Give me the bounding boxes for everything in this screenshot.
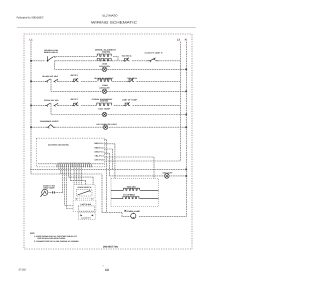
wire lamp1 branch [55, 61, 187, 70]
switch door contacts [77, 190, 93, 197]
wire N rail [139, 42, 186, 217]
svg-text:THERMO DISC: THERMO DISC [40, 120, 60, 123]
wire comb route right b [70, 168, 85, 185]
svg-text:2W4557700: 2W4557700 [103, 246, 119, 249]
svg-text:ORG P1-3: ORG P1-3 [95, 150, 104, 153]
node junction rung2-L1 [30, 81, 32, 83]
header rule [17, 26, 196, 28]
wire lamp2 branch [51, 79, 186, 91]
diagram border frame [24, 34, 192, 249]
svg-text:SPST: SPST [71, 74, 80, 77]
wire comb drop box1 c [78, 168, 80, 185]
contact rung3 limit [124, 102, 131, 106]
node junction rung4-L1 [30, 126, 32, 128]
svg-text:CONV NO 16A: CONV NO 16A [44, 99, 59, 102]
lamp conv indicator [102, 112, 106, 116]
svg-text:N: N [185, 38, 187, 41]
wire rung4 main [31, 126, 186, 128]
wire pin line 4 [104, 157, 154, 179]
box lock motor unit [73, 200, 96, 211]
contact rung3 dlb [72, 102, 78, 106]
wire rung3 main [31, 104, 180, 106]
lamp bake indicator [102, 89, 106, 93]
node junction rung3-L1 [30, 105, 32, 107]
resistor conv coil [97, 103, 112, 105]
wire pin line 3 [104, 153, 109, 176]
svg-text:BRN P1-1: BRN P1-1 [95, 142, 104, 145]
wire box1 to box2 links [77, 198, 93, 200]
svg-text:2500W: 2500W [100, 100, 108, 103]
connector comb P1 [57, 164, 91, 167]
svg-text:ELECTRONIC OVEN CONTROL: ELECTRONIC OVEN CONTROL [48, 143, 70, 146]
svg-text:BAKE NO 16A: BAKE NO 16A [43, 75, 59, 78]
wire lamp3 branch [51, 103, 186, 114]
svg-text:OVEN: OVEN [102, 62, 108, 65]
box lower connector [78, 212, 95, 219]
connector motor plug [53, 191, 55, 194]
node junction bus-N [185, 169, 187, 171]
resistor bake coil [98, 79, 111, 81]
node junction lamp3-N [185, 114, 187, 116]
svg-text:YEL P1-4: YEL P1-4 [95, 154, 104, 157]
svg-text:3410W: 3410W [102, 51, 110, 54]
wire comb drop 1 [58, 168, 60, 170]
wire rung1 upper branch [56, 56, 119, 61]
wire L1 rail [31, 42, 131, 217]
resistor fan hi coil [111, 188, 158, 190]
svg-text:LIGHT 120V: LIGHT 120V [99, 87, 110, 90]
wire pin line 0 [104, 140, 106, 213]
stray scan mark [103, 265, 104, 266]
svg-text:Publication No: 5995434637: Publication No: 5995434637 [17, 17, 44, 20]
wire rung1 main [31, 60, 180, 62]
lamp broil indicator [102, 67, 106, 71]
wire comb route right a [68, 168, 93, 185]
svg-text:TOD 60T11: TOD 60T11 [122, 55, 132, 58]
svg-text:4 CAVITY LIMIT S: 4 CAVITY LIMIT S [145, 51, 164, 54]
svg-text:HI SPEED: HI SPEED [123, 194, 136, 197]
svg-text:RED P1-2: RED P1-2 [95, 146, 104, 149]
svg-text:WIRING SCHEMATIC: WIRING SCHEMATIC [91, 21, 138, 25]
wire comb drop box2 b [67, 168, 74, 209]
svg-text:2. CONNECTORS IN P1 ARE S: 2. CONNECTORS IN P1 ARE SHOWN AS VIEWED. [34, 240, 79, 243]
svg-text:BREAK RELAY: BREAK RELAY [44, 51, 59, 54]
svg-text:13: 13 [105, 268, 109, 272]
svg-text:LATCH SW: LATCH SW [81, 203, 92, 206]
wire oven light line [110, 175, 187, 177]
svg-text:LIGHT 120V: LIGHT 120V [99, 65, 111, 68]
lamp oven light [165, 174, 170, 179]
box two speed fan [111, 179, 158, 207]
svg-text:OVEN: OVEN [102, 84, 108, 87]
resistor broil outer coil [97, 54, 111, 56]
wire comb drop box2 a [65, 168, 74, 206]
connector lower marks [80, 215, 93, 216]
wire pin line 2 [104, 149, 112, 169]
wire rung2 main [31, 80, 180, 82]
svg-text:EL27MASO: EL27MASO [103, 14, 119, 18]
wire pin line 1 [104, 144, 115, 179]
resistor broil inner coil [97, 59, 111, 61]
node junction lamp1-N [185, 69, 187, 71]
svg-text:NOTE:: NOTE: [30, 232, 35, 235]
resistor fan lo coil [111, 197, 158, 199]
wire comb drop 2 [60, 168, 62, 174]
wire comb drop box1 d [81, 168, 83, 185]
svg-text:LIMIT OF TEMP: LIMIT OF TEMP [122, 98, 138, 101]
svg-text:DOOR SWITCH: DOOR SWITCH [78, 186, 92, 189]
switch rung1 limit [148, 58, 159, 62]
switch bake relay blade2 [54, 79, 59, 82]
lamp hot surface indicator [103, 125, 107, 129]
node junction lamp2-N [185, 91, 187, 93]
switch conv relay blade2 [54, 103, 59, 106]
svg-text:OVEN LAMP: OVEN LAMP [127, 210, 141, 213]
svg-text:37182: 37182 [19, 268, 27, 271]
node junction light-N [185, 175, 187, 177]
wire L2 rail [105, 42, 181, 162]
wire neutral bus line [30, 168, 186, 170]
svg-text:AVG TEMP: AVG TEMP [98, 108, 111, 111]
svg-text:SPST: SPST [71, 98, 80, 101]
bulb oven cavity [125, 210, 136, 219]
switch bake relay [45, 79, 51, 83]
svg-text:GRY P1-5: GRY P1-5 [95, 158, 104, 161]
svg-text:TOD 60T11: TOD 60T11 [127, 77, 137, 80]
switch DLB relay [48, 56, 56, 61]
contact rung1 TOD [123, 58, 130, 62]
node junction rung1-L1 [30, 60, 32, 62]
motor M1 [40, 189, 48, 197]
switch conv relay [45, 103, 51, 107]
wire comb drop box1 b [76, 168, 78, 185]
contact rung2 dlb [72, 78, 78, 82]
svg-text:1 2 3 4 5 6 7 8 9 10 11 12 13: 1 2 3 4 5 6 7 8 9 10 11 12 13 14 15 [58, 162, 91, 164]
wire comb drop motor [48, 168, 63, 193]
switch rung4 [46, 125, 55, 129]
svg-text:POSITION WITH OVEN DOOR CLOSED: POSITION WITH OVEN DOOR CLOSED. [38, 237, 66, 240]
contact rung2 tod [128, 78, 135, 82]
node junction lamp4-N [185, 126, 187, 128]
control board box U1 [36, 138, 104, 167]
wire comb drop box1 a [73, 168, 75, 185]
box door switch [74, 185, 96, 199]
connector lock inner [78, 206, 94, 211]
